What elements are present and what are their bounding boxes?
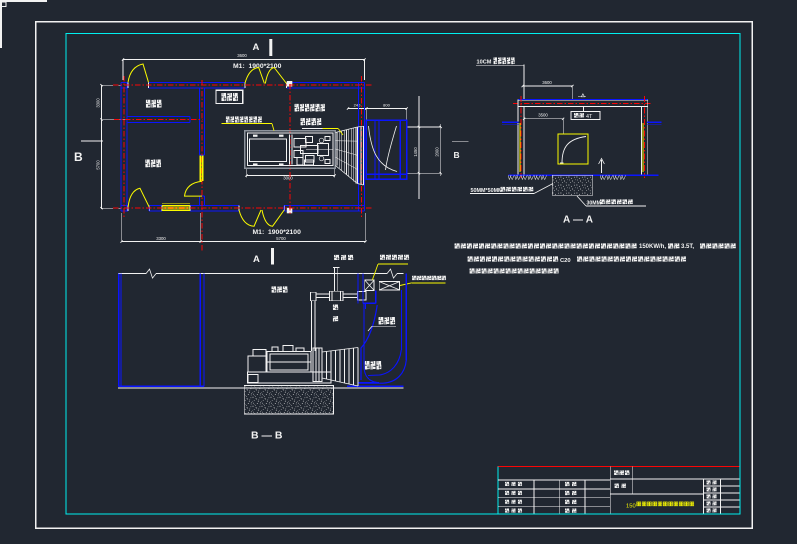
plan: radiator fan cone bbox=[335, 127, 357, 133]
plan: section mark B left bbox=[81, 140, 103, 142]
plan: building top wall (blue double line) bbox=[121, 81, 128, 83]
bb: fan cone side view bbox=[322, 348, 358, 353]
bb: horizontal exhaust pipe left bbox=[316, 293, 330, 295]
plan: building right wall bbox=[358, 82, 360, 211]
notes line 3 bbox=[470, 268, 475, 273]
bb: foundation block (stippled concrete) bbox=[244, 386, 333, 415]
plan: section mark B right bbox=[452, 140, 469, 142]
svg-text:3600: 3600 bbox=[237, 53, 247, 58]
plan: machine dimension line bbox=[247, 175, 335, 177]
aa: left wall bbox=[517, 99, 519, 175]
bb: duct inner guide curve bbox=[361, 305, 377, 380]
plan: door post squares at double doors bbox=[287, 81, 293, 87]
svg-text:150KW/h,: 150KW/h, bbox=[639, 244, 666, 250]
aa: inner dimension line bbox=[524, 118, 563, 120]
bb: elbow and down pipe to engine bbox=[311, 292, 317, 301]
bb: duct outer right wall and bend bbox=[405, 274, 407, 360]
plan: generator set inner outline bbox=[247, 133, 333, 166]
titleblock: cyan left edge bbox=[497, 467, 499, 514]
bb: muffler cylinder bbox=[330, 291, 344, 301]
aa: right wall bbox=[647, 99, 649, 175]
bb: floor lines bbox=[118, 387, 404, 389]
plan: partition wall between oil room and duty room bbox=[127, 116, 190, 118]
svg-text:M1: 1900*2100: M1: 1900*2100 bbox=[253, 229, 302, 236]
bb: vertical label muffler bbox=[333, 305, 339, 311]
svg-text:3500: 3500 bbox=[538, 113, 548, 118]
bb: label exhaust air duct bbox=[365, 361, 370, 370]
bb: alternator block bbox=[248, 356, 266, 372]
plan: louver in partition wall (yellow) bbox=[199, 156, 201, 181]
bb: label spark arrester silencer (yellow leader) bbox=[412, 276, 417, 281]
aa: dimension above roof bbox=[523, 85, 573, 87]
titleblock: drawing name cell label bbox=[615, 484, 620, 489]
svg-text:A: A bbox=[253, 254, 260, 265]
svg-text:150: 150 bbox=[626, 504, 636, 510]
svg-text:800: 800 bbox=[383, 102, 390, 107]
bb: spark arrester silencer box (bow-tie) bbox=[379, 282, 399, 290]
plan: louver window in bottom wall (yellow) bbox=[162, 203, 190, 205]
svg-text:A: A bbox=[253, 42, 260, 53]
titleblock: row labels left column bbox=[505, 482, 509, 486]
svg-text:3600: 3600 bbox=[542, 80, 552, 85]
bb: middle wall (blue) bbox=[199, 274, 201, 387]
plan: top-right dimension line bbox=[348, 108, 407, 110]
bb: damper box with X (secondary silencer) bbox=[365, 280, 374, 290]
viewport corner mark top-left bbox=[0, 0, 47, 48]
svg-text:1450: 1450 bbox=[413, 147, 418, 157]
svg-text:5700: 5700 bbox=[96, 160, 101, 170]
plan: left dimension line bbox=[101, 85, 103, 209]
bb: engine base frame bbox=[248, 372, 332, 383]
bb: exhaust stack pipe through roof bbox=[334, 268, 336, 292]
plan: alternator and accessories detail bbox=[289, 135, 291, 165]
plan: label exhaust device (two lines, yellow leader) bbox=[295, 104, 300, 112]
titleblock: project name cell label bbox=[614, 470, 619, 475]
titleblock: red top rule bbox=[498, 466, 740, 468]
bb: room label bbox=[272, 286, 277, 293]
plan: door in partition (yellow swing) bbox=[185, 181, 203, 196]
titleblock: row labels second column bbox=[565, 482, 570, 487]
bb: exhaust duct blue walls bbox=[357, 274, 359, 304]
aa: gravel/stipple block under slab bbox=[552, 175, 593, 195]
plan: bottom dimension line bbox=[122, 241, 366, 243]
plan: building left wall bbox=[120, 82, 122, 211]
svg-text:3300: 3300 bbox=[156, 236, 166, 241]
plan: door of duty room (yellow swing) bbox=[128, 188, 149, 207]
svg-text:B: B bbox=[454, 150, 460, 160]
bb: left wall (blue) bbox=[118, 274, 120, 387]
plan: door D1 top-left (yellow swing) bbox=[128, 64, 149, 82]
plan: double door bottom (yellow swings) bbox=[239, 210, 261, 226]
plan: red centerline left wall bbox=[123, 76, 125, 217]
bb: engine body bbox=[267, 352, 311, 373]
plan: duct guide vanes (white curves) bbox=[369, 126, 398, 172]
bb: horizontal pipe right and silencer box bbox=[343, 293, 358, 295]
svg-text:A — A: A — A bbox=[563, 215, 593, 226]
svg-text:B — B: B — B bbox=[251, 430, 283, 442]
aa: blue eave strips bbox=[502, 121, 519, 123]
aa: roof slab bbox=[518, 98, 648, 100]
svg-text:3300: 3300 bbox=[96, 98, 101, 108]
svg-text:240: 240 bbox=[354, 102, 361, 107]
plan: room label oil storage bbox=[146, 100, 151, 108]
aa: small level mark on roof bbox=[578, 96, 586, 98]
titleblock: table grid right section bbox=[632, 467, 634, 495]
svg-text:3.5T,: 3.5T, bbox=[681, 244, 694, 250]
svg-text:5700: 5700 bbox=[276, 236, 286, 241]
plan: red centerline horizontal bottom bbox=[113, 207, 372, 209]
inner cyan border frame bbox=[66, 34, 740, 515]
notes line 1 bbox=[455, 243, 460, 248]
svg-text:C20: C20 bbox=[560, 258, 571, 264]
svg-text:4T: 4T bbox=[586, 114, 593, 120]
plan: room label duty room bbox=[145, 159, 150, 167]
aa: airflow arrow bbox=[601, 160, 603, 173]
titleblock: table grid left section bbox=[498, 479, 610, 481]
plan: right side dimension lines bbox=[418, 96, 420, 199]
aa: soil hatching right bbox=[600, 175, 625, 179]
plan: top dimension line bbox=[123, 59, 365, 61]
bb: label secondary silencer (yellow leader) bbox=[380, 255, 385, 260]
plan: exhaust duct enclosure (blue) bbox=[366, 120, 406, 179]
bb: radiator bbox=[313, 348, 322, 382]
bb: duct mid wall bbox=[400, 290, 402, 350]
titleblock: small right column labels bbox=[707, 480, 711, 484]
plan: red centerline through generator bbox=[289, 84, 291, 214]
plan: red centerline right wall bbox=[361, 76, 363, 218]
plan: engine block bbox=[250, 139, 287, 162]
plan: label diesel generator foundation (yellow leader) bbox=[226, 116, 230, 123]
svg-text:10CM: 10CM bbox=[477, 60, 492, 66]
aa: soil hatching left bbox=[508, 175, 546, 179]
bb: label exhaust pipe bbox=[334, 255, 339, 260]
notes line 2 bbox=[468, 256, 473, 261]
svg-text:2000: 2000 bbox=[435, 147, 440, 157]
svg-text:B: B bbox=[74, 150, 83, 164]
aa: ground line bbox=[508, 174, 658, 176]
plan: building bottom wall (blue double line) bbox=[121, 204, 128, 206]
plan: red centerline horizontal top bbox=[113, 84, 372, 86]
bb: label radiator fins bbox=[379, 317, 384, 325]
plan: red centerline oil room partition bbox=[114, 119, 202, 121]
aa: intake scroll (yellow box) bbox=[558, 134, 588, 164]
bb: top slab line with break symbols bbox=[118, 273, 146, 275]
plan: red centerline machine-room partition bbox=[201, 80, 203, 252]
aa: hoist rail box 4T bbox=[571, 112, 600, 120]
plan: partition wall of machine room (vertical) bbox=[198, 88, 200, 155]
svg-text:3000: 3000 bbox=[283, 175, 293, 180]
plan: double door top (yellow swings) bbox=[245, 68, 265, 84]
plan: generator set outer frame (gray) bbox=[245, 131, 336, 169]
plan: white jamb caps at wall openings bbox=[127, 82, 129, 88]
svg-text:M1: 1900*2100: M1: 1900*2100 bbox=[233, 63, 282, 70]
plan: control panel box bbox=[216, 90, 243, 103]
